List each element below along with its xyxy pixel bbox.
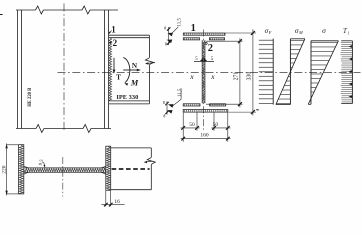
svg-text:8: 8 xyxy=(163,100,165,105)
svg-text:8: 8 xyxy=(164,25,166,30)
tick 50 b xyxy=(195,126,199,130)
label 2 leader dot xyxy=(205,42,207,44)
fillet weld triangle left xyxy=(200,58,204,61)
column left flange outer line xyxy=(17,10,19,129)
stress diagram sigma combined xyxy=(310,41,312,105)
beam plan bottom edge xyxy=(111,189,152,191)
beam web cut left line xyxy=(201,40,203,103)
normal force N arrow xyxy=(123,69,138,71)
break mark on column top right xyxy=(82,6,90,14)
extension line 330 bottom xyxy=(228,111,256,113)
svg-text:2: 2 xyxy=(208,43,213,54)
column HE 220 B top edge with break marks xyxy=(16,9,36,11)
tick top b xyxy=(167,41,170,44)
extension line web right xyxy=(213,113,215,131)
extension line left top xyxy=(168,27,170,45)
svg-text:HE 220 B: HE 220 B xyxy=(27,87,33,106)
weld arrow bottom first xyxy=(168,104,174,108)
section 2-2 top flange strip right xyxy=(209,38,224,40)
tick 330 bottom xyxy=(251,110,255,114)
svg-text:1: 1 xyxy=(191,23,196,34)
extension line left bottom xyxy=(166,101,168,114)
leader 11,5 top xyxy=(171,27,178,34)
dimension line 16 xyxy=(101,204,124,206)
svg-text:1: 1 xyxy=(348,31,350,35)
svg-text:IPE 330: IPE 330 xyxy=(116,95,138,101)
plan vertical centreline xyxy=(62,157,64,197)
dimension line 330 xyxy=(252,29,254,115)
leader 11,5 bottom xyxy=(172,88,182,106)
plan section left flange xyxy=(19,145,24,194)
svg-text:330: 330 xyxy=(246,72,252,81)
fillet weld triangle right xyxy=(204,58,208,61)
column left flange inner line xyxy=(21,10,23,129)
section mark 1 leader arrow xyxy=(109,31,112,34)
dimension line 160 xyxy=(181,138,231,140)
svg-text:220: 220 xyxy=(1,165,7,174)
column bottom edge with break marks xyxy=(16,128,36,130)
weld seam hatching at column face xyxy=(109,38,112,101)
svg-text:16: 16 xyxy=(114,199,120,205)
section mark 2 leader arrow xyxy=(110,41,113,43)
moment M arc arrow xyxy=(123,58,130,83)
beam IPE 330 top flange lower line xyxy=(109,37,150,39)
svg-text:2: 2 xyxy=(113,38,118,48)
beam IPE 330 bottom flange upper line xyxy=(109,100,150,102)
shear force T arrow xyxy=(113,58,115,71)
svg-text:F: F xyxy=(268,30,272,35)
stress diagram sigma_M butterfly xyxy=(289,39,291,105)
tick 50 a xyxy=(181,126,185,130)
svg-text:160: 160 xyxy=(200,133,209,139)
extension line web left xyxy=(196,113,198,131)
beam continuation arrow at beam end xyxy=(147,62,155,65)
svg-text:1: 1 xyxy=(111,24,116,34)
extension line 330 top xyxy=(225,32,256,34)
page artifact below sigma_F xyxy=(256,109,259,111)
svg-text:8: 8 xyxy=(165,42,167,47)
tick 160 a xyxy=(181,137,185,141)
extension line 271 bottom xyxy=(206,103,243,105)
extension line flange right edge xyxy=(227,113,229,142)
stress diagram tau (shear) xyxy=(351,41,353,104)
web thickness leader arrow xyxy=(44,162,45,166)
node main horizontal centreline y=72.6 xyxy=(58,72,361,74)
dimension line 220 xyxy=(6,143,8,195)
section 2-2 top flange strip left xyxy=(183,38,199,40)
extension line flange left edge xyxy=(182,113,184,142)
weld arrow top second xyxy=(167,40,173,44)
beam IPE 330 bottom flange lower line xyxy=(109,103,150,105)
column right flange outer line xyxy=(108,10,110,129)
weld arrow top first xyxy=(167,33,173,37)
tick 50 d xyxy=(226,126,230,130)
weld arrow bottom second xyxy=(167,110,173,114)
extension line 271 top xyxy=(206,40,243,42)
break mark on column bottom right xyxy=(83,125,91,133)
dimension 16 extension left xyxy=(105,191,107,206)
svg-text:T: T xyxy=(116,73,121,81)
svg-text:5: 5 xyxy=(211,57,214,62)
svg-text:M: M xyxy=(298,30,303,35)
svg-text:50: 50 xyxy=(213,122,219,128)
tick 160 b xyxy=(226,137,230,141)
svg-text:8: 8 xyxy=(163,113,165,118)
beam web weld hatching xyxy=(202,41,204,104)
fillet weld callout line xyxy=(194,60,214,62)
bottom flange strip A right xyxy=(210,104,226,106)
break mark on column top left xyxy=(36,6,44,14)
beam plan end line with break xyxy=(150,148,152,157)
dimension line 50 left xyxy=(181,127,200,129)
section 1-1 top flange weld strip xyxy=(183,33,225,35)
beam hidden web dashed line xyxy=(112,168,150,170)
dimension 16 extension right xyxy=(110,191,112,206)
svg-text:σ: σ xyxy=(322,26,326,35)
break mark on column bottom left xyxy=(36,125,44,133)
plan section web xyxy=(24,167,106,169)
tick 271 bottom xyxy=(238,102,242,106)
svg-text:x: x xyxy=(189,72,194,81)
tick bottom a xyxy=(165,102,168,105)
dimension line 271 xyxy=(239,38,241,107)
beam plan continuation arrow xyxy=(145,160,153,163)
bottom flange strip A left xyxy=(183,104,200,106)
tick 271 top xyxy=(238,39,242,43)
node column vertical centreline x=64 xyxy=(63,4,65,133)
beam end cut line with break xyxy=(148,35,150,57)
beam IPE 330 top flange upper line xyxy=(109,34,150,36)
tick bottom b xyxy=(165,111,168,114)
svg-text:11,5: 11,5 xyxy=(178,88,183,97)
beam plan top edge xyxy=(111,147,152,149)
tick 16 b xyxy=(109,203,113,207)
plan section right flange (column) xyxy=(106,146,111,190)
svg-text:M: M xyxy=(130,79,139,88)
column right flange inner line xyxy=(104,10,106,129)
tick 330 top xyxy=(251,31,255,35)
tick 50 c xyxy=(212,126,216,130)
tick 16 a xyxy=(104,203,108,207)
dimension 220 extension bottom xyxy=(7,193,19,195)
stress diagram sigma_F block xyxy=(272,39,274,105)
tick top a xyxy=(167,27,170,30)
svg-text:x: x xyxy=(210,72,215,81)
svg-text:11,5: 11,5 xyxy=(177,18,182,27)
dimension 220 extension top xyxy=(7,144,19,146)
bottom flange strip B xyxy=(183,110,228,113)
svg-text:50: 50 xyxy=(189,122,195,128)
section vertical centreline xyxy=(203,30,205,131)
svg-text:271: 271 xyxy=(233,72,239,81)
beam web cut right line xyxy=(204,40,206,103)
dimension line 50 right xyxy=(211,127,230,129)
svg-text:N: N xyxy=(132,62,138,70)
page artifact left edge dash xyxy=(0,14,3,16)
